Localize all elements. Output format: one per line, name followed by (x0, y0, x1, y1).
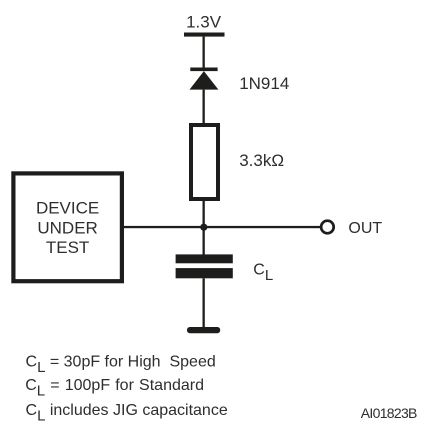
terminal OUT circle (321, 221, 334, 234)
diode D1 triangle (190, 71, 219, 90)
node junction dot (200, 224, 207, 231)
diode D1 cathode bar (190, 68, 217, 72)
capacitor CL bottom plate (176, 268, 233, 278)
svg-text:3.3kΩ: 3.3kΩ (239, 151, 284, 170)
power rail 1.3V bar (184, 33, 225, 37)
svg-text:1N914: 1N914 (239, 74, 289, 93)
svg-text:TEST: TEST (46, 238, 89, 257)
wire capacitor to ground (203, 278, 205, 327)
svg-text:UNDER: UNDER (37, 218, 97, 237)
device under test box (13, 173, 122, 281)
svg-text:DEVICE: DEVICE (36, 198, 99, 217)
svg-text:OUT: OUT (348, 220, 382, 237)
ground (187, 327, 220, 333)
capacitor CL top plate (176, 254, 233, 263)
wire DUT to OUT terminal (123, 226, 320, 228)
svg-text:AI01823B: AI01823B (361, 405, 417, 421)
wire rail to diode (203, 37, 205, 69)
resistor R1 (191, 125, 218, 199)
wire resistor to node (203, 201, 205, 255)
svg-text:1.3V: 1.3V (186, 12, 222, 31)
wire diode to resistor (203, 90, 205, 124)
